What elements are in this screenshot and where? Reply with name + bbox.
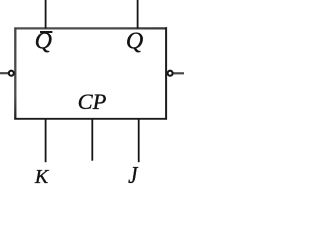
- svg-text:K: K: [34, 166, 50, 184]
- svg-text:J: J: [128, 162, 138, 184]
- svg-text:Q: Q: [35, 29, 52, 55]
- svg-text:CP: CP: [78, 89, 107, 114]
- svg-text:Q: Q: [126, 29, 143, 55]
